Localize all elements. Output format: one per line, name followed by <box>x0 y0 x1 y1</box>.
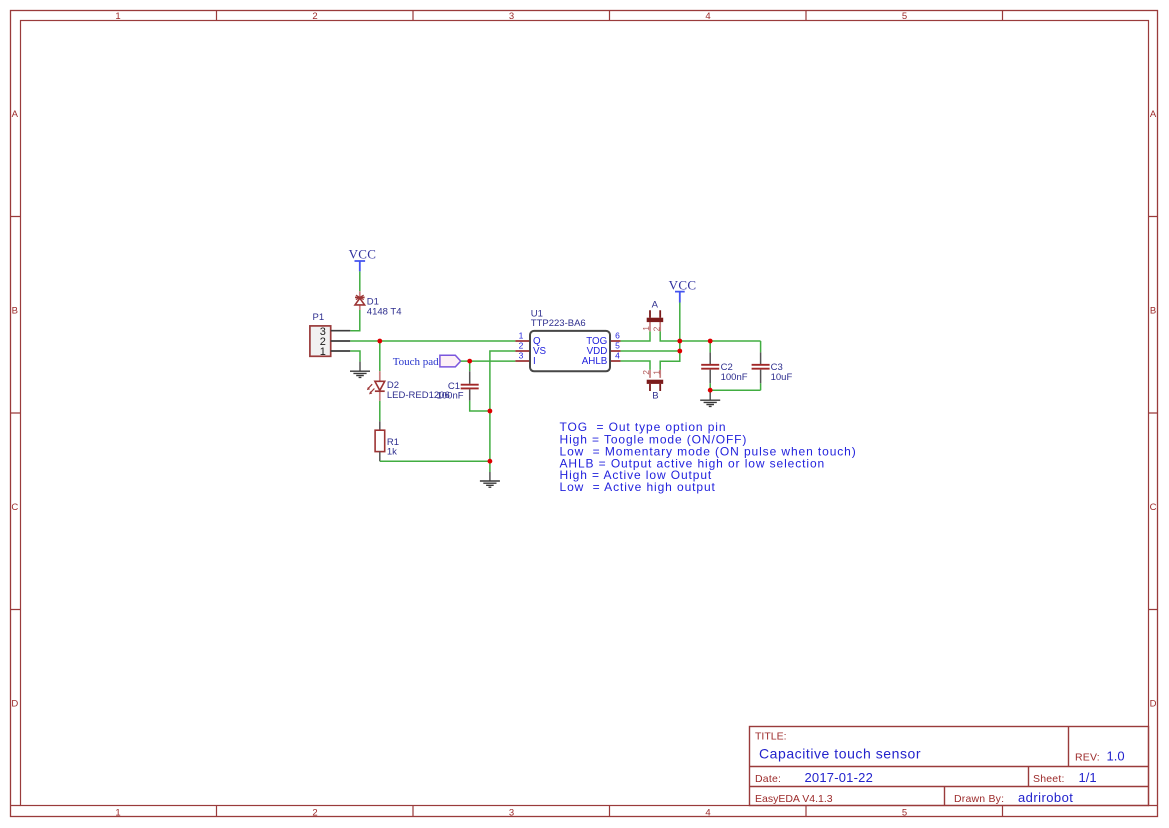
svg-text:2: 2 <box>641 370 651 375</box>
net flag Touch pad <box>393 355 461 368</box>
wire D1 to P1 pin3 <box>350 310 360 331</box>
svg-text:4: 4 <box>705 11 710 22</box>
svg-text:2: 2 <box>312 807 317 818</box>
svg-text:C: C <box>11 502 18 513</box>
wire VCC node to capacitors <box>680 340 761 342</box>
resistor R1 1k <box>375 430 399 461</box>
ground (P1) <box>350 371 370 377</box>
svg-text:1.0: 1.0 <box>1107 749 1125 764</box>
svg-text:4148 T4: 4148 T4 <box>367 306 402 317</box>
wire C3 bottom to C2 bottom <box>710 389 760 391</box>
svg-text:D: D <box>1150 699 1157 710</box>
junction C1 / ground rail <box>488 409 493 414</box>
power flag VCC (P1 branch) <box>349 247 377 272</box>
connector P1 <box>310 312 350 358</box>
wire TOG to jumper A <box>621 331 650 341</box>
svg-text:2: 2 <box>312 11 317 22</box>
svg-text:1: 1 <box>641 326 651 331</box>
svg-text:1: 1 <box>651 370 661 375</box>
wire VDD U1 pin5 <box>621 350 680 352</box>
jumper B <box>641 370 663 402</box>
svg-text:EasyEDA V4.1.3: EasyEDA V4.1.3 <box>755 793 833 805</box>
wire jumper B to VDD node <box>660 351 680 370</box>
LED D2 LED-RED1206 <box>367 371 450 401</box>
junction R1 / ground rail <box>488 459 493 464</box>
junction C2 top <box>708 339 713 344</box>
svg-text:100nF: 100nF <box>437 390 464 401</box>
svg-text:VCC: VCC <box>669 278 697 293</box>
svg-text:Low = Active high output: Low = Active high output <box>560 480 716 494</box>
svg-text:P1: P1 <box>313 312 325 323</box>
IC U1 TTP223-BA6 <box>515 308 620 371</box>
svg-text:A: A <box>12 109 19 120</box>
svg-text:AHLB: AHLB <box>582 356 608 367</box>
svg-text:A: A <box>652 299 659 310</box>
svg-text:B: B <box>652 391 658 402</box>
wire C2 to ground <box>709 390 711 400</box>
svg-text:1: 1 <box>115 11 120 22</box>
svg-text:5: 5 <box>615 341 620 351</box>
wire junction to D2 <box>379 341 381 371</box>
wire P1 pin2 to U1 pin1 <box>350 340 515 342</box>
svg-text:Sheet:: Sheet: <box>1033 773 1065 785</box>
svg-text:Touch pad: Touch pad <box>393 356 439 368</box>
svg-text:Capacitive touch sensor: Capacitive touch sensor <box>759 745 921 761</box>
svg-text:2017-01-22: 2017-01-22 <box>805 770 874 785</box>
svg-text:REV:: REV: <box>1075 752 1100 764</box>
wire touch node to C1 <box>469 361 471 371</box>
capacitor C3 10uF <box>752 341 793 390</box>
junction VCC/TOG <box>677 339 682 344</box>
svg-text:VCC: VCC <box>349 247 377 262</box>
svg-text:1k: 1k <box>387 446 397 457</box>
wire D2 to R1 <box>379 401 381 430</box>
svg-text:3: 3 <box>509 11 514 22</box>
svg-text:2: 2 <box>651 326 661 331</box>
wire VCC to rail <box>679 303 681 342</box>
svg-text:5: 5 <box>902 11 907 22</box>
svg-text:A: A <box>1150 109 1157 120</box>
svg-text:4: 4 <box>705 807 710 818</box>
svg-text:TITLE:: TITLE: <box>755 730 787 742</box>
svg-text:1: 1 <box>519 331 524 341</box>
wire P1 pin1 to ground <box>350 351 360 371</box>
junction VDD <box>677 349 682 354</box>
svg-text:1: 1 <box>320 346 326 358</box>
wire Touch pad to U1 pin3 <box>461 360 516 362</box>
svg-text:10uF: 10uF <box>771 372 793 383</box>
svg-text:100nF: 100nF <box>721 372 748 383</box>
jumper A <box>641 299 663 331</box>
svg-text:B: B <box>1150 306 1156 317</box>
svg-text:1: 1 <box>115 807 120 818</box>
svg-text:5: 5 <box>902 807 907 818</box>
wire VCC to D1 <box>359 271 361 291</box>
ground (C2) <box>700 400 720 406</box>
ground (VS rail) <box>480 481 500 487</box>
svg-text:3: 3 <box>509 807 514 818</box>
svg-text:I: I <box>533 356 536 367</box>
wire U1 pin2 VS to ground <box>490 351 516 481</box>
svg-text:6: 6 <box>615 331 620 341</box>
junction P1 pin2 / D2 <box>377 339 382 344</box>
svg-text:2: 2 <box>519 341 524 351</box>
svg-text:1/1: 1/1 <box>1079 770 1097 785</box>
junction C2 bottom <box>708 388 713 393</box>
wire AHLB to jumper B <box>621 361 650 370</box>
svg-text:B: B <box>12 306 18 317</box>
capacitor C2 100nF <box>701 341 748 390</box>
note text block <box>560 420 857 494</box>
wire VCC node to VDD node <box>679 341 681 351</box>
svg-text:adrirobot: adrirobot <box>1018 790 1073 805</box>
junction touch node <box>467 359 472 364</box>
svg-text:Date:: Date: <box>755 773 781 785</box>
svg-text:Drawn By:: Drawn By: <box>954 793 1004 805</box>
svg-text:TTP223-BA6: TTP223-BA6 <box>531 318 586 329</box>
svg-text:3: 3 <box>519 351 524 361</box>
wire jumper A to VCC node <box>660 331 680 341</box>
wire C1 to ground rail <box>470 401 490 411</box>
diode D1 4148 T4 <box>355 291 402 317</box>
svg-text:4: 4 <box>615 351 620 361</box>
title block <box>750 727 1149 806</box>
capacitor C1 100nF <box>437 371 479 401</box>
power flag VCC (U1 branch) <box>669 278 697 303</box>
svg-text:C: C <box>1150 502 1157 513</box>
svg-text:D: D <box>11 699 18 710</box>
wire R1 to ground rail <box>380 460 490 462</box>
